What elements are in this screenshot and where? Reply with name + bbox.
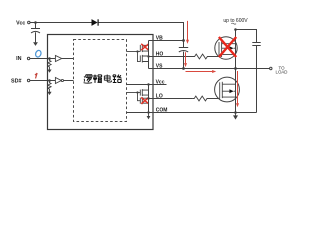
transistor Q2 (driver pull-down, HO stage) <box>140 55 148 63</box>
wire COM / ground bus <box>127 112 257 114</box>
Vcc terminal <box>16 20 30 26</box>
transistor Q1 (driver pull-up, HO stage) <box>140 44 148 52</box>
node source-ground <box>234 111 237 114</box>
wire gate bus branch lower <box>138 93 141 101</box>
diode D1 (bootstrap) <box>92 19 99 26</box>
node drain-rail <box>234 28 237 31</box>
inverter U1b (SD input, with bubble) <box>55 78 63 84</box>
svg-text:up to 600V: up to 600V <box>223 18 248 24</box>
svg-text:SD#: SD# <box>11 79 22 85</box>
callout squiggle <box>231 23 236 24</box>
ground (below R2) <box>47 92 51 95</box>
wire upper rail VB-VS <box>148 41 150 69</box>
red current arrow (diode to VB) <box>186 21 189 44</box>
node IN annotation 0 <box>35 50 42 58</box>
ground (power) <box>235 113 237 116</box>
node VB-bootstrap junction <box>182 39 185 42</box>
red X on M1 (off) <box>219 37 236 57</box>
red current arrow (cap to VS) <box>184 52 187 67</box>
transistor M2 (external low-side MOSFET) <box>215 77 240 102</box>
red current arrow (through M2 to ground) <box>236 71 239 107</box>
IN terminal <box>16 56 30 62</box>
resistor R1 (IN pulldown) <box>48 59 51 70</box>
node SD junction <box>48 79 51 82</box>
capacitor C2 (bootstrap) <box>179 41 188 69</box>
wire HO <box>149 56 194 58</box>
wire phase to ground <box>235 69 237 113</box>
buffer U1a (IN input buffer) <box>55 56 61 62</box>
resistor R2 (SD pulldown) <box>48 81 51 92</box>
wire Vcc rail top <box>30 23 184 41</box>
node gate bus lower <box>136 91 138 93</box>
svg-text:LOAD: LOAD <box>276 70 288 75</box>
wire drain to HV rail <box>235 30 237 69</box>
node Vcc-cap junction <box>34 21 37 24</box>
node IN junction <box>48 57 51 60</box>
ground (below R1) <box>47 70 51 73</box>
node HO tap <box>147 55 149 57</box>
capacitor C3 (bus) <box>252 43 260 113</box>
wire logic to upper gate bus <box>127 51 141 53</box>
node VS-bootstrap junction <box>182 67 185 70</box>
wire SD# <box>30 80 56 82</box>
resistor R4 (LO gate) <box>193 96 220 101</box>
ground (below C1) <box>33 42 38 46</box>
wire VS <box>149 68 270 70</box>
svg-text:IN: IN <box>16 56 21 62</box>
node COM-rail <box>147 111 149 113</box>
transistor Q3 (driver pull-up, LO stage) <box>140 89 148 96</box>
red X on Q4 (off) <box>141 97 149 103</box>
wire VB <box>149 40 184 42</box>
wire LO <box>149 98 193 100</box>
red X on Q1 (off) <box>141 44 149 50</box>
SD# terminal <box>11 79 30 85</box>
capacitor C1 (Vcc decoupling) <box>31 23 40 43</box>
node LO tap <box>147 97 149 99</box>
resistor R3 (HO gate) <box>193 54 219 59</box>
node gate bus upper <box>136 50 138 52</box>
node SD annotation 1 <box>35 73 37 78</box>
red current arrow (VS to FET) <box>186 70 217 73</box>
wire gate bus branch upper <box>138 52 141 62</box>
terminal TO LOAD <box>270 65 288 74</box>
transistor Q4 (driver pull-down, LO stage) <box>140 97 148 104</box>
char 逻 <box>84 75 93 83</box>
ground (internal, below COM) <box>148 113 150 117</box>
char 电 <box>104 75 111 83</box>
node Vcc-rail <box>147 83 149 85</box>
char 路 <box>113 75 122 83</box>
wire inverter to logic <box>64 80 74 82</box>
IC U1 package outline <box>48 35 154 130</box>
wire IN <box>30 58 56 60</box>
wire logic to lower gate bus <box>127 92 141 94</box>
wire HV rail <box>236 30 257 43</box>
label 逻辑电路 (hand-drawn CJK strokes) <box>84 75 122 84</box>
logic block 逻辑电路 (dashed) <box>74 40 127 122</box>
wire lower rail Vcc-COM <box>148 85 150 113</box>
wire buffer to logic <box>62 58 74 60</box>
char 辑 <box>93 75 102 84</box>
svg-text:Vcc: Vcc <box>16 20 25 26</box>
node phase (VS) <box>234 67 237 70</box>
transistor M1 (external high-side MOSFET) <box>215 37 237 59</box>
wire Vcc pin <box>127 84 167 86</box>
